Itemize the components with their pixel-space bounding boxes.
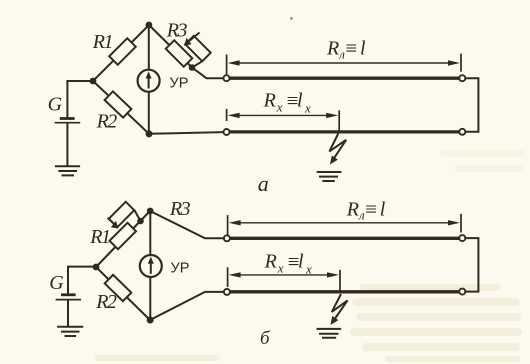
dimension R_l (circuit a): line, ticks, arrows [227, 54, 461, 75]
svg-text:l: l [360, 38, 366, 60]
svg-text:R1: R1 [89, 226, 109, 248]
svg-text:G: G [49, 272, 64, 294]
svg-text:R2: R2 [96, 111, 118, 133]
svg-text:x: x [305, 261, 312, 276]
svg-text:R3: R3 [166, 19, 188, 41]
wire: bridge a diagonal L-T [93, 25, 149, 81]
terminal: a top-right [459, 75, 465, 81]
dimension R_l (circuit b): line, ticks, arrows [228, 214, 461, 236]
resistor R2 (circuit a) [105, 91, 132, 117]
galvanometer UR (circuit a) [138, 70, 160, 92]
resistor R1 (circuit a) [109, 38, 136, 65]
dimension R_x (circuit b): line, ticks, arrows [228, 267, 340, 292]
label R_l = l (circuit b) [346, 197, 386, 223]
svg-text:R: R [346, 199, 359, 221]
fault ground (circuit a) [317, 172, 342, 181]
fault lightning (circuit b) [332, 294, 348, 320]
node: bottom node b [147, 317, 154, 324]
node: R1 junction dot (circuit b) [137, 218, 144, 225]
terminal: b top-right [459, 235, 465, 241]
resistor R2 (circuit b) [105, 275, 132, 301]
cable R_l thick line (circuit b) [230, 237, 459, 240]
speck [290, 17, 293, 20]
wire: left node b to battery [68, 267, 96, 294]
wire: top node a to R3 junction [149, 25, 192, 68]
node: top node a [146, 22, 153, 29]
wire: top node b to top cable terminal [150, 211, 224, 238]
label R_l = l (circuit a) [326, 36, 366, 62]
wire: left node a to battery [67, 81, 93, 117]
dimension R_x (circuit a): line, ticks, arrows [227, 109, 340, 133]
wire: bridge b diagonal L-B [96, 267, 150, 320]
svg-text:УР: УР [171, 261, 190, 277]
svg-text:l: l [297, 90, 303, 112]
terminal: b top-left [224, 235, 230, 241]
variable resistor R1 (circuit b) [108, 202, 141, 249]
wire: bridge b diagonal L-T [96, 211, 150, 267]
terminal: a top-left [224, 75, 230, 81]
battery G (circuit b) short plate [61, 293, 76, 296]
wire: battery b to ground [67, 300, 69, 326]
svg-text:УР: УР [170, 75, 189, 91]
node: R3 junction dot [189, 64, 196, 71]
svg-text:a: a [258, 171, 269, 196]
svg-text:R: R [264, 251, 277, 273]
svg-text:≡: ≡ [365, 197, 377, 221]
svg-text:G: G [48, 94, 63, 116]
node: bottom node a [146, 130, 153, 137]
svg-text:≡: ≡ [345, 36, 357, 60]
galvanometer UR (circuit b) [140, 255, 162, 277]
wire: R3 junction to top cable terminal [192, 68, 223, 79]
terminal: a bottom-right [459, 129, 465, 135]
svg-text:R3: R3 [169, 198, 191, 220]
cable R_x thick line (circuit a) [230, 130, 459, 133]
wire: a far-end loop [466, 78, 479, 132]
svg-text:R: R [326, 38, 339, 60]
wire: bridge a diagonal L-B [93, 81, 149, 134]
label R_x = l_x (circuit b) [264, 249, 312, 276]
fault ground (circuit b) [317, 329, 342, 338]
node: top node b [147, 208, 154, 215]
fault lightning (circuit a) [329, 134, 346, 160]
node: left node b [93, 264, 100, 271]
ground (battery b) [57, 327, 83, 336]
ground (battery a) [55, 166, 80, 175]
svg-text:R2: R2 [95, 291, 117, 313]
cable R_l thick line (circuit a) [230, 77, 459, 80]
svg-text:б: б [260, 328, 271, 349]
svg-text:x: x [304, 101, 311, 116]
battery G (circuit b) long plate [56, 299, 81, 301]
battery G (circuit a) long plate [55, 122, 81, 124]
variable resistor R3 (circuit a) [166, 33, 211, 68]
terminal: a bottom-left [224, 129, 230, 135]
ghost print-through texture bottom right [95, 150, 525, 362]
node: left node a [90, 78, 97, 85]
svg-text:R1: R1 [92, 31, 112, 53]
wire: bottom node a to bottom cable terminal [149, 132, 223, 134]
battery G (circuit a) short plate [60, 117, 75, 120]
svg-text:x: x [277, 261, 284, 276]
terminal: b bottom-right [459, 289, 465, 295]
svg-text:л: л [358, 208, 365, 223]
cable R_x thick line (circuit b) [230, 290, 459, 293]
svg-text:x: x [276, 100, 283, 115]
label R_x = l_x (circuit a) [263, 88, 311, 115]
wire: battery a to ground [66, 124, 68, 167]
wire: bridge a vertical T-B [148, 25, 150, 134]
svg-text:l: l [298, 251, 304, 273]
wire: bottom node b to bottom cable terminal [150, 292, 224, 320]
wire: bridge b vertical T-B [149, 211, 151, 320]
svg-text:l: l [380, 199, 386, 221]
terminal: b bottom-left [224, 289, 230, 295]
wire: b far-end loop [466, 238, 479, 292]
svg-text:л: л [338, 47, 345, 62]
svg-text:R: R [263, 90, 276, 112]
